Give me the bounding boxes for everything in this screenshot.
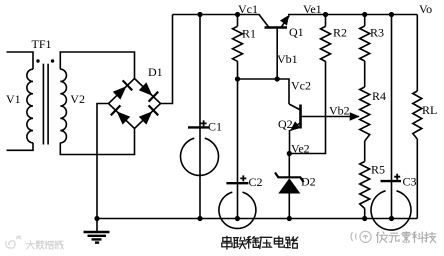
ground symbol [84, 219, 110, 243]
capacitor C1 [181, 119, 223, 175]
wire top rail right segment (Ve1/Vo net) [288, 14, 417, 16]
node C3 bottom [389, 216, 394, 221]
potentiometer R4 [360, 87, 370, 141]
transformer core [42, 64, 44, 145]
svg-text:R3: R3 [370, 26, 384, 40]
capacitor C3 [371, 174, 417, 230]
wire secondary bottom to bridge bottom corner [60, 129, 134, 155]
svg-text:R4: R4 [372, 89, 386, 103]
wire secondary top to bridge top corner [60, 52, 134, 79]
node D2 bottom [287, 216, 292, 221]
svg-text:Vc1: Vc1 [238, 2, 258, 16]
svg-text:TF1: TF1 [32, 37, 52, 51]
bridge diode top-left [113, 80, 132, 99]
svg-text:Q1: Q1 [289, 25, 304, 39]
wire Ve2 to R2 bottom [289, 61, 325, 153]
svg-text:Vo: Vo [419, 2, 432, 16]
node R5 bottom [362, 216, 367, 221]
svg-text:Q2: Q2 [278, 117, 293, 131]
svg-text:D2: D2 [301, 175, 316, 189]
wire bridge left corner to ground [97, 104, 109, 219]
svg-text:C1: C1 [208, 119, 222, 133]
transformer secondary winding V2 [60, 69, 66, 143]
svg-text:RL: RL [422, 103, 437, 117]
wire top rail left segment (Vc1 net) [173, 14, 260, 16]
transistor Q2 [278, 104, 359, 154]
svg-text:R2: R2 [333, 26, 347, 40]
wire C2 column [237, 79, 239, 219]
node C2 bottom [235, 216, 240, 221]
svg-text:R1: R1 [242, 27, 256, 41]
bridge diode top-right [139, 82, 158, 101]
caption 串联稳压电路 [222, 236, 232, 249]
node R1 bottom / Vb1 [235, 76, 240, 81]
svg-text:Vc2: Vc2 [291, 79, 311, 93]
svg-text:D1: D1 [148, 65, 163, 79]
node ground junction [94, 216, 99, 221]
bridge diode bottom-right [139, 105, 158, 124]
transformer phase dot right [51, 59, 54, 62]
svg-text:V1: V1 [6, 92, 21, 106]
transformer phase dot left [36, 59, 39, 62]
watermark bottom-left logo [6, 236, 21, 248]
resistor R2 [321, 26, 331, 61]
node Ve2 [287, 151, 292, 156]
wire Vb1 node to Q2 collector [238, 79, 290, 104]
wiper arrow to R4 [350, 112, 360, 121]
resistor R3 [360, 26, 370, 61]
node C1 bottom [197, 216, 202, 221]
svg-text:Vb2: Vb2 [329, 104, 350, 118]
watermark bottom-right text 依元素科技 [377, 232, 388, 243]
node R2 top [323, 12, 328, 17]
svg-text:C2: C2 [249, 175, 263, 189]
resistor RL [413, 91, 422, 139]
watermark bottom-left text [26, 241, 34, 249]
svg-text:V2: V2 [70, 92, 85, 106]
transistor Q1 [259, 15, 304, 80]
node C3 top [389, 12, 394, 17]
node C1 top [197, 12, 202, 17]
wire C1 column [199, 15, 201, 219]
bridge diode bottom-left [111, 105, 130, 124]
svg-text:C3: C3 [403, 175, 417, 189]
wire C3 column [391, 15, 393, 219]
zener diode D2 [275, 154, 316, 219]
resistor R1 [233, 26, 243, 61]
wire RL column [416, 15, 418, 92]
wire bottom ground rail [97, 218, 417, 220]
node R3 top [362, 12, 367, 17]
bridge rectifier D1 diamond [109, 79, 161, 129]
node Q1 base junction [275, 76, 280, 81]
transformer primary winding V1 [27, 69, 33, 143]
wire bridge DC+ riser [161, 15, 173, 104]
capacitor C2 [219, 175, 263, 228]
node R1 top [235, 12, 240, 17]
watermark bottom-right logo [351, 231, 371, 242]
svg-text:R5: R5 [371, 163, 385, 177]
svg-text:Vb1: Vb1 [277, 52, 298, 66]
svg-text:Ve1: Ve1 [303, 2, 322, 16]
resistor R5 [360, 162, 370, 209]
